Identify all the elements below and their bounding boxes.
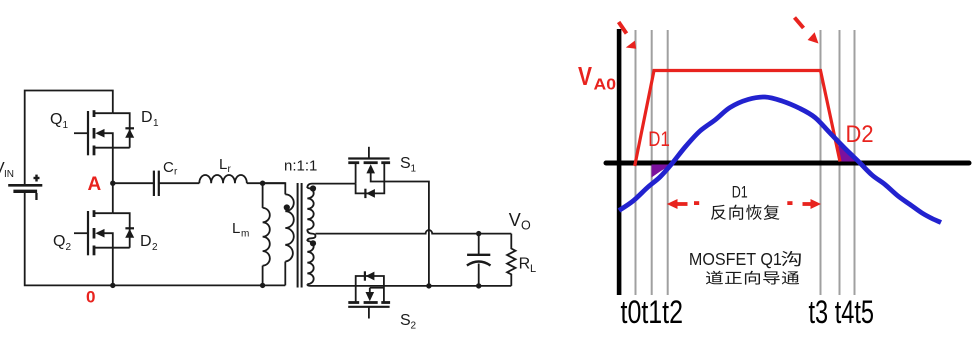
- svg-text:1: 1: [153, 118, 159, 129]
- label char 向: [745, 271, 760, 285]
- transistor S1: [348, 147, 390, 184]
- svg-text:2: 2: [152, 242, 158, 253]
- transformer primary winding: [263, 183, 294, 285]
- wire node A to Cr: [113, 182, 153, 184]
- svg-text:m: m: [241, 229, 249, 240]
- label char 正: [725, 272, 742, 284]
- x axis: [606, 161, 969, 166]
- transistor Q1: [74, 110, 130, 155]
- label char 沟: [781, 251, 800, 266]
- node S1/S2 output junction: [426, 283, 431, 288]
- transistor S2: [348, 286, 390, 319]
- node Lm bottom junction: [260, 283, 265, 288]
- label char 反: [711, 205, 726, 220]
- inductor Lr: [199, 175, 247, 183]
- svg-text:L: L: [219, 156, 227, 173]
- svg-text:L: L: [530, 263, 536, 275]
- svg-text:S: S: [400, 155, 411, 172]
- svg-text:V: V: [509, 210, 521, 230]
- svg-text:t3 t4t5: t3 t4t5: [809, 294, 875, 330]
- transformer core: [298, 183, 302, 288]
- shaded region D1 (reverse recovery area): [652, 165, 672, 178]
- svg-text:t0t1t2: t0t1t2: [621, 294, 684, 330]
- node cap bottom: [476, 283, 481, 288]
- gridline t2: [667, 30, 669, 295]
- diode D1 (body diode of Q1): [113, 113, 134, 148]
- capacitor Cr: [154, 171, 159, 196]
- transformer secondary bottom winding: [307, 234, 315, 286]
- wire Q1 source to node A to Q2 drain: [112, 148, 114, 214]
- svg-text:1: 1: [411, 164, 417, 175]
- svg-text:D1: D1: [648, 127, 670, 151]
- wire battery negative to bottom rail: [25, 191, 286, 285]
- svg-text:S: S: [400, 312, 411, 329]
- wire S1 right to output vertical: [384, 182, 429, 286]
- svg-text:Q: Q: [53, 233, 65, 250]
- svg-text:n:1:1: n:1:1: [284, 158, 317, 175]
- red VA0 waveform trapezoid: [635, 71, 840, 167]
- gridline t5: [854, 30, 856, 295]
- svg-text:2: 2: [411, 321, 417, 332]
- secondary top phase dot: [310, 185, 316, 191]
- wire center-tap rail with hop: [316, 230, 512, 234]
- y axis: [617, 29, 622, 295]
- battery VIN: [8, 185, 42, 191]
- svg-text:C: C: [163, 159, 174, 176]
- node A: [110, 181, 115, 186]
- red dashed arrow mid-right: [787, 201, 792, 205]
- gridline t0: [635, 30, 637, 295]
- label char 恢: [746, 205, 762, 220]
- resistor RL: [507, 234, 515, 286]
- label char 复: [764, 205, 780, 220]
- svg-text:2: 2: [66, 242, 72, 253]
- primary phase dot: [284, 204, 290, 210]
- red dashed arrow top-left: [619, 22, 627, 34]
- gridline t4: [839, 30, 841, 295]
- diode S2 body diode: [356, 271, 384, 286]
- secondary bottom phase dot: [310, 240, 316, 246]
- wire Lr to Lm node to primary: [247, 182, 285, 184]
- label char 道: [706, 271, 723, 285]
- svg-text:D: D: [140, 233, 152, 250]
- svg-text:IN: IN: [4, 169, 14, 180]
- capacitor output: [467, 234, 491, 286]
- diode S1 body diode: [356, 182, 385, 199]
- svg-text:1: 1: [63, 120, 69, 131]
- svg-text:L: L: [232, 220, 240, 237]
- svg-text:A0: A0: [594, 76, 617, 93]
- label char 导: [763, 271, 779, 284]
- svg-text:A: A: [88, 174, 102, 195]
- label char 向: [729, 205, 743, 220]
- svg-text:R: R: [519, 256, 531, 273]
- svg-text:Q: Q: [50, 111, 62, 128]
- wire top rail from battery to Q1 drain: [25, 91, 113, 186]
- svg-text:D1: D1: [732, 183, 748, 201]
- wire Cr to Lr: [160, 182, 200, 184]
- svg-text:MOSFET Q1: MOSFET Q1: [689, 249, 782, 269]
- gridline t1: [651, 30, 653, 295]
- svg-text:0: 0: [86, 288, 95, 307]
- node cap top: [476, 231, 481, 236]
- svg-text:D: D: [141, 109, 153, 126]
- wire secondary bottom rail: [311, 285, 511, 287]
- label char 通: [782, 271, 799, 284]
- node 0: [110, 283, 115, 288]
- gridline t3: [820, 30, 822, 295]
- red dashed arrow mid-left: [677, 202, 688, 206]
- node Lr/Lm junction: [260, 181, 265, 186]
- inductor Lm: [263, 183, 270, 285]
- diode D2 (body diode of Q2): [113, 213, 134, 248]
- svg-text:O: O: [521, 219, 531, 233]
- transistor Q2: [74, 210, 130, 255]
- svg-text:D2: D2: [846, 122, 874, 148]
- wire Q2 source down to node 0: [112, 248, 114, 286]
- red dashed arrow top-right: [795, 18, 804, 29]
- transformer secondary top winding: [307, 184, 355, 234]
- svg-text:V: V: [578, 63, 592, 91]
- blue resonant current curve: [619, 97, 941, 223]
- shaded region D2: [838, 144, 860, 162]
